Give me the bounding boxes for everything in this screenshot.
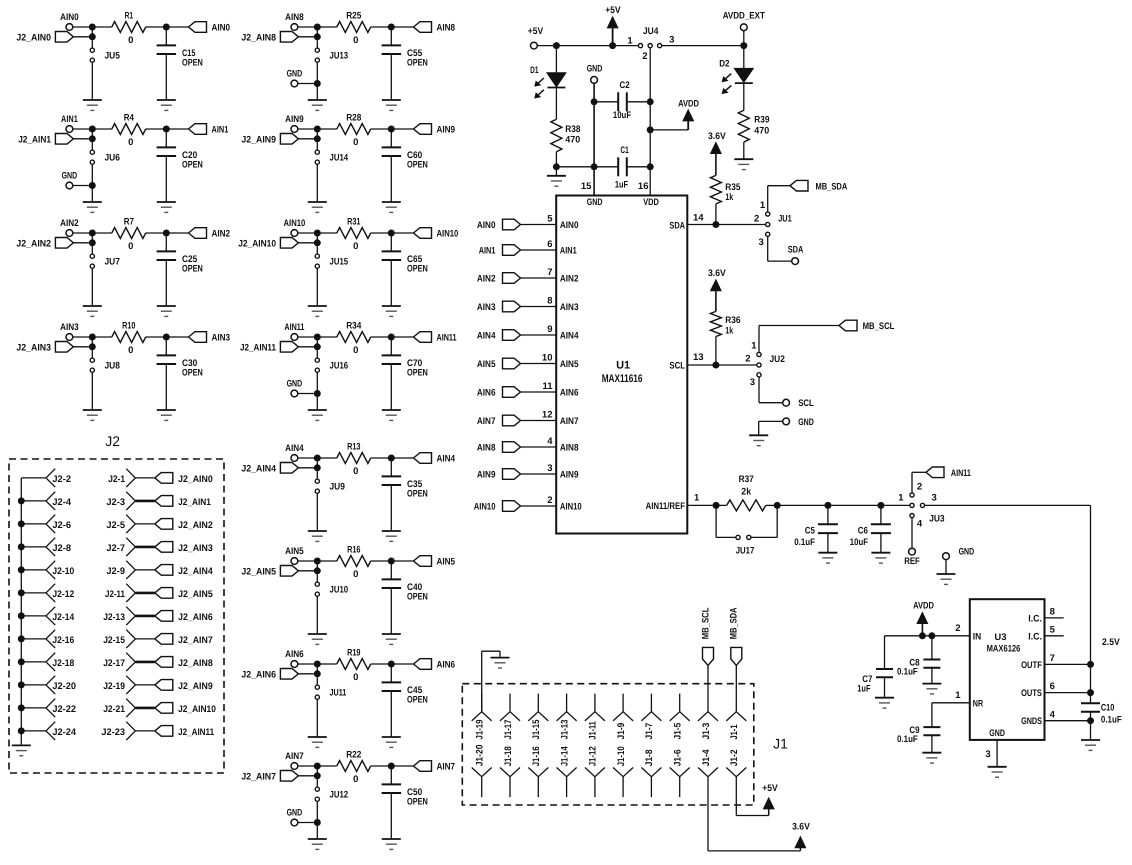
svg-text:+5V: +5V <box>528 26 544 37</box>
node J2_AIN2 flag <box>16 238 73 250</box>
junction AIN7 <box>314 763 321 770</box>
svg-text:JU14: JU14 <box>330 153 349 164</box>
svg-text:3.6V: 3.6V <box>708 131 726 142</box>
svg-text:470: 470 <box>754 125 769 136</box>
resistor R19 <box>317 648 391 683</box>
junction AIN7 lower <box>314 766 321 779</box>
svg-text:OPEN: OPEN <box>407 58 428 69</box>
svg-text:J2-2: J2-2 <box>52 474 71 485</box>
wire GND terminal to JU13 rail <box>298 83 318 85</box>
power symbol AVDD arrow <box>650 98 699 130</box>
node AIN2 flag into U1 pin 7 <box>477 273 521 285</box>
junction AIN9 output <box>388 126 395 133</box>
junction AIN11 <box>314 334 321 341</box>
svg-text:J2-13: J2-13 <box>103 612 125 623</box>
svg-text:AIN5: AIN5 <box>285 546 304 557</box>
wire GND rail down to U1 pin 15 <box>593 83 595 195</box>
capacitor C25 <box>157 236 203 306</box>
svg-text:OPEN: OPEN <box>407 368 428 379</box>
svg-text:0: 0 <box>353 345 358 356</box>
svg-text:J1-6: J1-6 <box>673 750 684 767</box>
node MB_SDA flag <box>790 180 847 192</box>
connector J2 outline <box>9 433 224 773</box>
pin J1-20 <box>472 745 492 798</box>
wire U3 I.C. pin 8 <box>1028 607 1063 625</box>
svg-text:J1-15: J1-15 <box>531 719 542 740</box>
svg-text:AIN6: AIN6 <box>285 649 304 660</box>
resistor R36 1k <box>710 311 740 365</box>
wire U1 pin 9 <box>521 324 580 342</box>
svg-text:JU13: JU13 <box>330 51 349 62</box>
svg-text:JU12: JU12 <box>330 790 349 801</box>
ground below JU15 <box>308 306 327 316</box>
svg-text:OPEN: OPEN <box>407 592 428 603</box>
junction AIN6 lower <box>314 664 321 677</box>
wire +5V rail <box>537 45 638 47</box>
svg-text:J2-1: J2-1 <box>108 474 125 485</box>
svg-text:AIN11/REF: AIN11/REF <box>646 501 686 512</box>
svg-text:J1-10: J1-10 <box>616 746 627 766</box>
svg-text:1uF: 1uF <box>615 180 628 191</box>
svg-text:J2_AIN2: J2_AIN2 <box>16 238 51 249</box>
wire JU2 pin3 to SCL terminal <box>759 377 783 403</box>
wire J2_AIN7 flag to junction <box>298 775 317 777</box>
wire AIN1 terminal to junction <box>73 128 93 130</box>
wire GND terminal to ground <box>759 421 783 435</box>
svg-text:2: 2 <box>547 495 552 506</box>
svg-text:R16: R16 <box>347 545 360 556</box>
resistor R31 <box>317 217 391 252</box>
ground below C55 <box>382 100 401 110</box>
svg-text:R19: R19 <box>347 648 360 659</box>
jumper JU1 <box>754 200 792 248</box>
ground below C9 <box>922 753 941 763</box>
junction AIN6 output <box>388 661 395 668</box>
junction AIN11/REF right <box>774 502 781 509</box>
ground below C65 <box>382 306 401 316</box>
ground below JU12 <box>308 839 327 849</box>
svg-text:GND: GND <box>959 546 975 557</box>
junction C5 <box>824 502 831 509</box>
wire U1 pin 10 <box>521 353 580 371</box>
svg-text:1: 1 <box>751 340 757 351</box>
ground below C35 <box>382 531 401 541</box>
svg-text:OPEN: OPEN <box>407 489 428 500</box>
node AIN4 input terminal <box>285 443 304 461</box>
svg-text:1: 1 <box>627 35 633 46</box>
svg-text:MB_SDA: MB_SDA <box>816 181 848 192</box>
resistor R4 <box>92 113 166 148</box>
svg-text:JU8: JU8 <box>105 361 120 372</box>
svg-text:0: 0 <box>353 672 358 683</box>
junction SDA R35 <box>712 221 719 228</box>
ground below C5 <box>818 553 837 563</box>
op-amp U3 MAX6126 body <box>970 599 1045 740</box>
capacitor C2 10uF <box>594 80 650 121</box>
pin J2-22 <box>18 699 76 717</box>
wire JU2 pin1 to MB_SCL flag <box>759 326 839 353</box>
node AIN10 output flag <box>391 228 458 240</box>
ground below C7 <box>875 698 894 708</box>
svg-text:OPEN: OPEN <box>407 160 428 171</box>
svg-text:10uF: 10uF <box>613 110 631 121</box>
svg-text:J2_AIN3: J2_AIN3 <box>178 543 213 554</box>
svg-text:0: 0 <box>353 774 358 785</box>
svg-text:16: 16 <box>638 181 649 192</box>
pin J2-15 with flag J2_AIN7 <box>103 630 213 648</box>
svg-text:0.1uF: 0.1uF <box>1101 714 1122 725</box>
junction +5V D1 branch <box>553 42 560 49</box>
wire D2 cathode to R39 <box>743 83 745 110</box>
wire J1-2 to +5V <box>736 797 768 815</box>
diode D2 LED <box>719 58 753 93</box>
svg-text:J2_AIN9: J2_AIN9 <box>178 681 213 692</box>
pin J2-2 <box>21 469 71 487</box>
svg-text:AIN3: AIN3 <box>60 322 79 333</box>
junction C8 IN <box>928 632 935 639</box>
node AIN3 flag into U1 pin 8 <box>477 301 521 313</box>
pin J2-17 with flag J2_AIN8 <box>103 653 213 671</box>
pin J1-12 <box>585 746 605 797</box>
node GND terminal near JU3 <box>943 546 975 559</box>
ground below JU3 GND terminal <box>937 574 956 584</box>
svg-text:J2_AIN0: J2_AIN0 <box>16 32 51 43</box>
svg-text:J2_AIN1: J2_AIN1 <box>18 134 51 145</box>
svg-text:AIN6: AIN6 <box>437 659 456 670</box>
svg-text:AIN2: AIN2 <box>212 228 231 239</box>
node GND terminal at JU12 <box>287 807 303 825</box>
jumper JU3 <box>898 481 944 529</box>
svg-text:OUTF: OUTF <box>1021 660 1042 671</box>
svg-text:OPEN: OPEN <box>182 264 203 275</box>
svg-text:REF: REF <box>904 556 920 567</box>
svg-text:AIN10: AIN10 <box>474 501 496 512</box>
ground below JU16 <box>308 410 327 420</box>
node MB_SCL flag <box>839 320 895 332</box>
svg-text:JU16: JU16 <box>330 361 349 372</box>
wire U3 IN pin 2 <box>885 623 982 642</box>
wire JU8 to ground <box>91 372 93 410</box>
capacitor C9 0.1uF <box>897 703 940 753</box>
junction AIN2 <box>89 230 96 237</box>
svg-text:AIN9: AIN9 <box>560 470 579 481</box>
resistor R13 <box>317 442 391 477</box>
node AIN2 output flag <box>166 228 230 240</box>
node J2_AIN0 flag <box>16 32 73 44</box>
node AIN1 input terminal <box>61 114 78 132</box>
svg-text:AIN2: AIN2 <box>477 273 496 284</box>
svg-text:U1: U1 <box>616 360 630 372</box>
pin J2-13 with flag J2_AIN6 <box>103 607 213 625</box>
svg-text:J2-17: J2-17 <box>103 658 125 669</box>
jumper JU11 <box>315 677 347 699</box>
svg-text:AIN4: AIN4 <box>560 331 579 342</box>
svg-text:OPEN: OPEN <box>407 797 428 808</box>
svg-text:1uF: 1uF <box>857 684 870 695</box>
pin J2-18 <box>18 653 74 671</box>
wire D2 anode <box>743 46 745 69</box>
node GND terminal at JU13 <box>287 68 303 87</box>
svg-text:J2_AIN1: J2_AIN1 <box>178 497 211 508</box>
svg-text:AIN9: AIN9 <box>437 124 456 135</box>
power symbol +5V arrow <box>605 5 621 46</box>
svg-text:R37: R37 <box>739 474 754 485</box>
pin 16 VDD label <box>638 181 659 208</box>
svg-text:GND: GND <box>287 378 303 389</box>
svg-text:4: 4 <box>917 518 923 529</box>
wire JU5 to ground <box>91 62 93 100</box>
jumper JU15 <box>315 246 348 268</box>
svg-text:J2_AIN11: J2_AIN11 <box>240 342 277 353</box>
svg-text:3: 3 <box>932 493 937 504</box>
junction AIN3 lower <box>89 337 96 350</box>
svg-text:3: 3 <box>750 377 755 388</box>
svg-text:AIN1: AIN1 <box>212 124 229 135</box>
svg-text:J2_AIN7: J2_AIN7 <box>178 635 213 646</box>
svg-text:JU15: JU15 <box>330 257 349 268</box>
node AIN4 flag into U1 pin 9 <box>477 330 521 342</box>
node AVDD_EXT terminal <box>723 11 765 43</box>
svg-text:AIN10: AIN10 <box>284 218 306 229</box>
svg-text:AIN4: AIN4 <box>437 453 456 464</box>
svg-text:R7: R7 <box>124 217 134 228</box>
capacitor C35 <box>382 461 428 531</box>
svg-text:10uF: 10uF <box>850 537 868 548</box>
svg-text:SCL: SCL <box>669 361 685 372</box>
svg-text:J2-15: J2-15 <box>103 635 125 646</box>
node AIN0 output flag <box>166 22 230 34</box>
ground below C50 <box>382 839 401 849</box>
svg-text:2k: 2k <box>741 487 751 498</box>
wire U1 pin 2 <box>521 495 582 513</box>
svg-text:AIN8: AIN8 <box>285 12 304 23</box>
node AIN6 output flag <box>391 659 455 671</box>
node AIN7 output flag <box>391 761 455 773</box>
ground below C8 <box>922 684 941 694</box>
junction AIN1 output <box>163 126 170 133</box>
ground below R38 <box>547 167 566 186</box>
svg-text:D1: D1 <box>530 65 539 76</box>
node AIN0 flag into U1 pin 5 <box>477 219 521 231</box>
node GND terminal top <box>587 63 603 83</box>
svg-text:AIN5: AIN5 <box>477 359 496 370</box>
svg-text:4: 4 <box>1050 709 1056 720</box>
svg-text:6: 6 <box>547 239 552 250</box>
pin J1-11 <box>585 694 605 740</box>
svg-text:0: 0 <box>353 466 358 477</box>
jumper JU5 <box>90 40 120 62</box>
wire AIN6 terminal to junction <box>298 663 318 665</box>
svg-text:JU11: JU11 <box>330 688 347 699</box>
junction AIN11 output <box>388 334 395 341</box>
junction AVDD arrow IN <box>919 632 926 639</box>
wire JU11 to ground <box>316 699 318 737</box>
svg-text:AIN1: AIN1 <box>560 246 577 257</box>
svg-text:J2-18: J2-18 <box>52 658 74 669</box>
svg-text:R28: R28 <box>346 113 361 124</box>
ground below C25 <box>157 306 176 316</box>
wire J2_AIN2 flag to junction <box>73 242 92 244</box>
svg-text:JU4: JU4 <box>643 26 659 37</box>
junction AIN4 output <box>388 455 395 462</box>
ground J2 bus <box>12 745 31 755</box>
svg-text:AIN0: AIN0 <box>477 220 496 231</box>
junction GND JU12 <box>314 819 321 826</box>
wire U1 pin 11 <box>521 381 579 399</box>
pin J2-4 <box>18 492 72 510</box>
pin J2-21 with flag J2_AIN10 <box>103 699 216 717</box>
svg-text:J2-12: J2-12 <box>52 589 74 600</box>
svg-text:J1-17: J1-17 <box>503 720 514 740</box>
svg-text:AIN4: AIN4 <box>477 330 496 341</box>
svg-text:AIN6: AIN6 <box>477 387 496 398</box>
wire JU6 to ground <box>91 164 93 202</box>
wire J2_AIN6 flag to junction <box>298 673 317 675</box>
wire R38 to ground rail <box>555 152 557 167</box>
ground at J1-19 <box>491 658 510 668</box>
svg-text:MB_SCL: MB_SCL <box>863 321 895 332</box>
pin 15 GND label <box>581 181 603 208</box>
pin J1-4 <box>698 749 718 797</box>
svg-text:AIN1: AIN1 <box>479 245 496 256</box>
svg-text:AIN2: AIN2 <box>560 274 579 285</box>
wire JU14 to ground <box>316 164 318 202</box>
node AIN2 input terminal <box>60 218 79 236</box>
wire D1 cathode to R38 <box>555 88 557 120</box>
node J2_AIN5 flag <box>241 566 298 578</box>
junction AIN0 output <box>163 24 170 31</box>
ground below C45 <box>382 737 401 747</box>
svg-text:AIN1: AIN1 <box>61 114 78 125</box>
svg-text:0: 0 <box>353 137 358 148</box>
node MB_SCL flag above J1-3 <box>700 607 713 693</box>
svg-text:0: 0 <box>128 241 133 252</box>
svg-text:R10: R10 <box>122 321 135 332</box>
wire JU3 pin2 to AIN11 flag <box>912 472 926 493</box>
capacitor C45 <box>382 667 428 737</box>
pin J2-3 with flag J2_AIN1 <box>106 492 211 510</box>
svg-text:VDD: VDD <box>643 197 659 208</box>
svg-text:J2-24: J2-24 <box>52 727 76 738</box>
node AIN8 flag into U1 pin 4 <box>477 442 521 454</box>
svg-text:AVDD_EXT: AVDD_EXT <box>723 11 765 22</box>
svg-text:3.6V: 3.6V <box>792 822 810 833</box>
node AIN1 output flag <box>166 124 229 136</box>
wire JU3 pin4 to REF terminal <box>911 518 913 548</box>
junction VDD C2 <box>647 98 654 105</box>
wire GND terminal to JU16 rail <box>298 393 318 395</box>
svg-text:I.C.: I.C. <box>1028 631 1042 642</box>
wire J2_AIN4 flag to junction <box>298 467 317 469</box>
svg-text:J1-4: J1-4 <box>701 749 712 766</box>
capacitor C20 <box>157 132 203 202</box>
svg-text:J2-4: J2-4 <box>52 497 71 508</box>
power symbol 3.6V arrow at J1 <box>792 822 810 848</box>
svg-text:J2: J2 <box>105 433 120 449</box>
svg-text:0: 0 <box>353 569 358 580</box>
pin J2-11 with flag J2_AIN5 <box>105 584 213 602</box>
svg-text:J2-7: J2-7 <box>106 543 125 554</box>
svg-text:AIN3: AIN3 <box>212 332 231 343</box>
junction OUTF 2.5V rail <box>1087 661 1094 668</box>
junction GND C1 rail <box>591 163 598 170</box>
svg-text:7: 7 <box>547 267 552 278</box>
pin J1-14 <box>557 746 577 797</box>
svg-text:JU9: JU9 <box>330 482 345 493</box>
svg-text:12: 12 <box>542 410 553 421</box>
svg-text:AIN6: AIN6 <box>560 388 579 399</box>
pin J2-12 <box>18 584 74 602</box>
node AIN10 input terminal <box>284 218 306 236</box>
junction GND C2 <box>591 98 598 105</box>
svg-text:J1-1: J1-1 <box>729 724 740 740</box>
junction AVDD_EXT <box>740 42 747 49</box>
svg-text:OPEN: OPEN <box>182 58 203 69</box>
svg-text:JU6: JU6 <box>105 153 120 164</box>
wire AIN0 terminal to junction <box>73 26 93 28</box>
svg-text:J2-5: J2-5 <box>106 520 125 531</box>
svg-text:AIN0: AIN0 <box>212 22 231 33</box>
svg-text:0: 0 <box>353 35 358 46</box>
svg-text:2: 2 <box>745 354 750 365</box>
junction AIN9 <box>314 126 321 133</box>
svg-text:3: 3 <box>759 237 764 248</box>
svg-text:AIN10: AIN10 <box>560 502 582 513</box>
junction AIN1 <box>89 126 96 133</box>
svg-text:AIN10: AIN10 <box>437 228 459 239</box>
wire U3 I.C. pin 5 <box>1028 624 1063 642</box>
svg-text:AIN7: AIN7 <box>437 761 456 772</box>
pin J1-16 <box>528 746 548 797</box>
wire U1 pin 1 AIN11/REF <box>646 493 717 513</box>
svg-text:8: 8 <box>547 296 552 307</box>
svg-text:J2-3: J2-3 <box>106 497 125 508</box>
pin J2-23 with flag J2_AIN11 <box>101 722 214 740</box>
svg-text:R36: R36 <box>725 315 740 326</box>
svg-text:7: 7 <box>1050 653 1055 664</box>
node AIN6 flag into U1 pin 11 <box>477 387 521 399</box>
wire AIN2 terminal to junction <box>73 232 93 234</box>
junction AIN5 lower <box>314 561 321 574</box>
svg-text:I.C.: I.C. <box>1028 613 1042 624</box>
node REF terminal <box>904 548 920 567</box>
svg-text:GND: GND <box>587 63 603 74</box>
svg-text:R1: R1 <box>125 11 134 22</box>
node AIN1 flag into U1 pin 6 <box>479 245 521 257</box>
ground below JU9 <box>308 531 327 541</box>
junction AIN5 output <box>388 558 395 565</box>
wire J1-4 to 3.6V <box>708 797 800 851</box>
svg-text:2: 2 <box>917 481 922 492</box>
svg-text:AIN3: AIN3 <box>560 302 579 313</box>
svg-text:C2: C2 <box>620 80 630 91</box>
svg-text:R25: R25 <box>346 11 362 22</box>
resistor R25 <box>317 11 391 46</box>
junction AIN11 lower <box>314 337 321 350</box>
ground below JU13 <box>308 100 327 110</box>
svg-text:SDA: SDA <box>669 221 685 232</box>
svg-text:R38: R38 <box>565 124 580 135</box>
svg-text:JU5: JU5 <box>105 51 121 62</box>
connector J1 outline <box>462 684 788 805</box>
pin J2-5 with flag J2_AIN2 <box>106 515 212 533</box>
svg-text:J1-8: J1-8 <box>644 750 655 767</box>
svg-text:J2-14: J2-14 <box>52 612 74 623</box>
ground below JU5 <box>83 100 102 110</box>
ground below C70 <box>382 410 401 420</box>
ground below SCL GND terminal <box>749 435 768 445</box>
pin J1-15 <box>528 694 548 740</box>
